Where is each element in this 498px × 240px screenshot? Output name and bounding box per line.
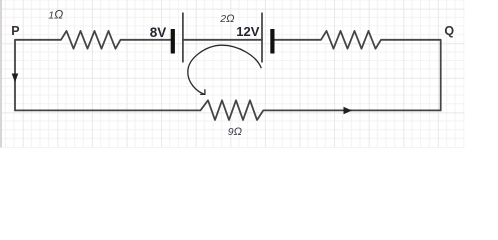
svg-text:2Ω: 2Ω <box>219 13 234 25</box>
svg-text:1Ω: 1Ω <box>48 8 63 22</box>
svg-text:9Ω: 9Ω <box>228 126 242 138</box>
svg-text:8V: 8V <box>150 25 167 40</box>
svg-text:Q: Q <box>444 24 454 38</box>
svg-text:P: P <box>11 24 19 38</box>
svg-text:12V: 12V <box>236 24 259 39</box>
